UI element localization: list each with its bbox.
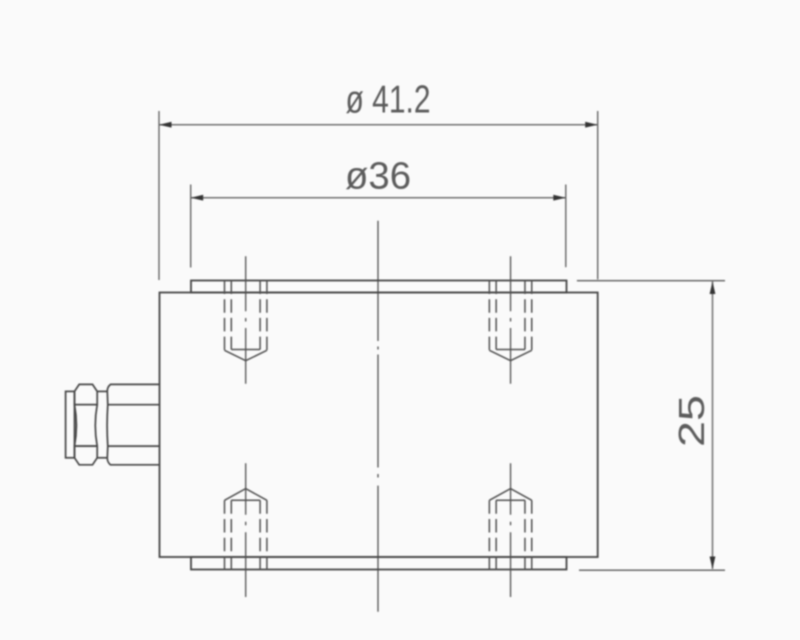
svg-text:25: 25 — [671, 395, 712, 447]
svg-text:ø 41.2: ø 41.2 — [346, 79, 431, 122]
svg-text:ø36: ø36 — [345, 156, 411, 198]
